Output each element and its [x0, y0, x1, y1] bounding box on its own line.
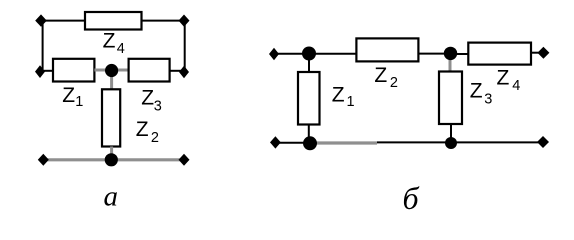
impedance Z4 (circuit b) [468, 43, 531, 65]
impedance Z3 (circuit a) [129, 59, 170, 82]
svg-text:1: 1 [347, 94, 355, 110]
svg-text:3: 3 [154, 98, 162, 114]
wire: dot1 down to Z1 [308, 54, 310, 73]
svg-text:4: 4 [117, 41, 125, 57]
impedance Z4 (circuit a) [85, 12, 142, 30]
svg-text:а: а [104, 180, 119, 212]
node: middle-right terminal (diamond) [179, 66, 189, 79]
wire: bottom rail left part [275, 142, 310, 144]
svg-text:Z: Z [141, 86, 154, 109]
impedance Z2 (circuit a) [102, 89, 120, 146]
impedance Z1 (circuit a) [53, 59, 94, 82]
svg-text:Z: Z [136, 118, 149, 141]
wire: Z2 to bottom rail (gray) [110, 147, 113, 161]
node: top-right terminal (diamond) [179, 15, 190, 27]
svg-text:Z: Z [103, 29, 116, 52]
svg-text:3: 3 [484, 92, 492, 108]
svg-text:б: б [403, 180, 420, 216]
node: top-right terminal (diamond) [537, 47, 549, 59]
svg-text:1: 1 [75, 94, 83, 110]
node: junction dot1 (top of Z1) [302, 47, 316, 61]
wire: center node to Z3 (gray) [112, 69, 129, 72]
svg-text:2: 2 [151, 130, 159, 146]
node: junction dot below Z1 [303, 136, 317, 150]
svg-text:4: 4 [512, 78, 520, 94]
wire: bottom rail right part [377, 141, 543, 143]
svg-text:Z: Z [62, 84, 75, 107]
impedance Z1 (circuit b) [298, 72, 320, 125]
node: bottom-left terminal (diamond) [38, 154, 49, 166]
wire: Z4 to top-right diamond [531, 52, 543, 54]
svg-text:2: 2 [390, 75, 398, 91]
svg-text:Z: Z [470, 80, 483, 103]
node: top-left terminal (diamond) [269, 48, 279, 61]
wire: left vertical (top-left to mid-left) [42, 21, 44, 72]
impedance Z2 (circuit b) [356, 38, 418, 61]
node: junction dot2 (top of Z3) [444, 47, 457, 60]
node: bottom-right terminal (diamond) [179, 154, 190, 166]
wire: top rail left part (diamond to Z2) [274, 53, 356, 55]
wire: right vertical (top-right to mid-right) [184, 21, 186, 72]
node: junction dot below Z3 [445, 137, 457, 149]
impedance Z3 (circuit b) [439, 72, 462, 125]
svg-text:Z: Z [374, 64, 387, 87]
wire: top rail circuit a [41, 20, 184, 22]
svg-text:Z: Z [332, 83, 345, 106]
wire: dot2 down to Z3 (gray) [449, 53, 452, 71]
node: center junction of T [105, 64, 118, 77]
wire: dot2 to Z4 [450, 53, 468, 55]
svg-text:Z: Z [497, 66, 510, 89]
node: top-left terminal (diamond) [35, 14, 47, 26]
wire: Z3 down to bottom rail [450, 124, 452, 143]
node: bottom-right terminal (diamond) [537, 136, 549, 148]
wire: Z1 down to bottom rail [308, 125, 310, 144]
wire: Z3 to mid-right diamond [170, 70, 184, 72]
wire: bottom rail circuit a (gray) [43, 158, 184, 161]
wire: mid-left diamond to Z1 [40, 70, 53, 72]
node: middle-left terminal (diamond) [35, 65, 45, 78]
wire: bottom rail gray segment [310, 141, 377, 144]
node: bottom-left terminal (diamond) [270, 136, 281, 148]
wire: center node down to Z2 (gray) [110, 70, 113, 89]
node: bottom junction [105, 153, 118, 166]
wire: Z1 to center node (gray) [94, 69, 111, 72]
wire: Z2 to dot2 [418, 53, 450, 55]
